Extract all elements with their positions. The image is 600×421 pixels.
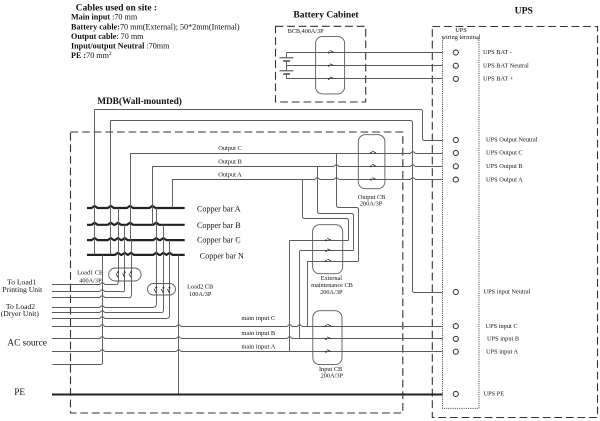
svg-text:Printing Unit: Printing Unit xyxy=(2,285,43,294)
svg-text:UPS PE: UPS PE xyxy=(484,391,505,398)
svg-text:200A/3P: 200A/3P xyxy=(320,289,343,296)
svg-text:UPS BAT +: UPS BAT + xyxy=(483,76,514,83)
svg-text:Copper bar B: Copper bar B xyxy=(197,221,241,230)
svg-text:External: External xyxy=(321,275,343,282)
svg-text:UPS input A: UPS input A xyxy=(486,348,518,355)
svg-text:Main input :70 mm: Main input :70 mm xyxy=(71,13,138,22)
svg-text:UPS input C: UPS input C xyxy=(486,323,518,330)
svg-text:UPS: UPS xyxy=(455,27,467,34)
svg-text:Input/output Neutral :70mm: Input/output Neutral :70mm xyxy=(71,42,170,51)
svg-text:Load1 CB: Load1 CB xyxy=(77,269,103,276)
svg-text:100A/3P: 100A/3P xyxy=(189,291,212,298)
svg-text:PE: PE xyxy=(14,388,25,398)
svg-text:UPS: UPS xyxy=(515,5,533,16)
svg-text:PE :70 mm2: PE :70 mm2 xyxy=(71,51,112,60)
svg-text:main input B: main input B xyxy=(241,330,276,337)
svg-text:UPS Output Neutral: UPS Output Neutral xyxy=(486,137,538,144)
svg-text:UPS Output B: UPS Output B xyxy=(486,163,523,170)
svg-text:main input A: main input A xyxy=(241,344,275,351)
svg-text:UPS input B: UPS input B xyxy=(487,336,519,343)
svg-text:200A/3P: 200A/3P xyxy=(360,201,383,208)
svg-text:UPS BAT Neutral: UPS BAT Neutral xyxy=(483,63,529,70)
svg-text:200A/3P: 200A/3P xyxy=(321,373,344,380)
svg-text:main input C: main input C xyxy=(241,315,275,322)
svg-text:UPS Output C: UPS Output C xyxy=(486,150,523,157)
svg-text:UPS BAT -: UPS BAT - xyxy=(483,49,512,56)
svg-text:Copper bar N: Copper bar N xyxy=(200,252,244,261)
svg-text:Output B: Output B xyxy=(218,158,242,165)
svg-text:MDB(Wall-mounted): MDB(Wall-mounted) xyxy=(97,96,182,107)
svg-text:Battery cable:70 mm(External);: Battery cable:70 mm(External); 50*2mm(In… xyxy=(71,22,240,31)
svg-text:UPS Output A: UPS Output A xyxy=(486,176,523,183)
svg-text:Output A: Output A xyxy=(218,172,242,179)
svg-text:400A/3P: 400A/3P xyxy=(79,278,102,285)
svg-text:Output cable: 70 mm: Output cable: 70 mm xyxy=(71,32,144,41)
svg-text:Load2 CB: Load2 CB xyxy=(187,284,213,291)
svg-text:UPS input Neutral: UPS input Neutral xyxy=(484,289,531,296)
svg-text:AC source: AC source xyxy=(7,339,47,349)
svg-text:Copper bar A: Copper bar A xyxy=(197,204,241,213)
svg-text:(Dryer Unit): (Dryer Unit) xyxy=(1,309,40,318)
svg-text:Output C: Output C xyxy=(218,145,242,152)
svg-text:wiring terminal: wiring terminal xyxy=(442,34,481,41)
svg-text:Copper bar C: Copper bar C xyxy=(197,235,241,244)
svg-text:Battery Cabinet: Battery Cabinet xyxy=(293,10,359,20)
svg-text:BCB,400A/3P: BCB,400A/3P xyxy=(288,28,324,35)
